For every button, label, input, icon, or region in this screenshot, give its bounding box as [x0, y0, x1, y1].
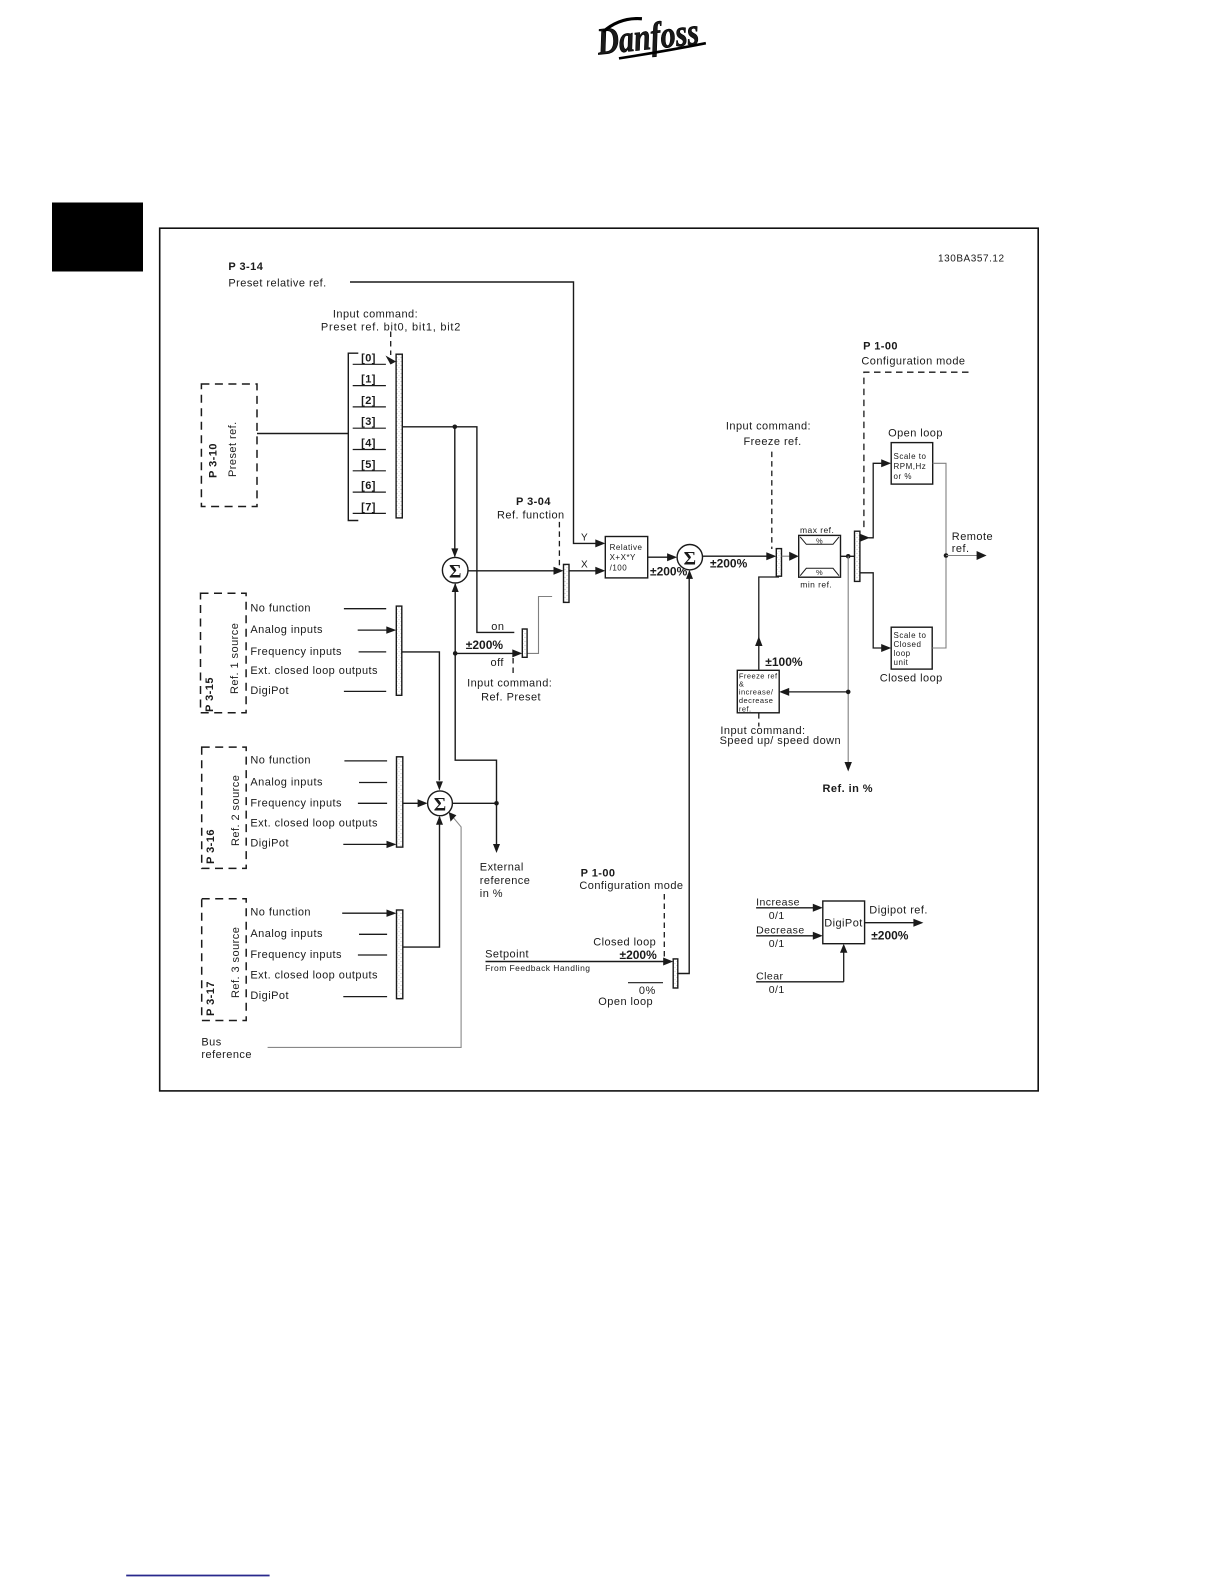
- svg-text:Ref. 3 source: Ref. 3 source: [230, 927, 242, 998]
- wire: freeze box up to freeze bar: [759, 577, 779, 670]
- wire: ref2 to sum2 left: [403, 802, 419, 804]
- svg-text:Frequency inputs: Frequency inputs: [250, 646, 342, 658]
- wire: ref3 to sum2 bottom: [403, 817, 440, 947]
- svg-text:Scale to: Scale to: [894, 452, 927, 461]
- svg-text:[1]: [1]: [361, 374, 376, 386]
- svg-text:Ref. 1 source: Ref. 1 source: [229, 623, 241, 694]
- svg-text:0/1: 0/1: [769, 910, 785, 922]
- op block scale to closed loop unit: [891, 627, 932, 669]
- svg-text:Configuration mode: Configuration mode: [861, 356, 965, 368]
- svg-text:Analog inputs: Analog inputs: [250, 928, 323, 940]
- wire: limiter output to main bar: [841, 555, 855, 557]
- wire: off input with arrow: [455, 652, 513, 654]
- svg-text:External: External: [480, 862, 524, 874]
- svg-text:unit: unit: [894, 658, 909, 667]
- svg-text:Input command:: Input command:: [333, 309, 418, 321]
- wire: ref1 to sum2 top: [402, 652, 440, 781]
- svg-text:Ext. closed loop outputs: Ext. closed loop outputs: [250, 817, 378, 829]
- svg-text:Ext. closed loop outputs: Ext. closed loop outputs: [250, 665, 378, 677]
- wire: sum1 output to ref function bar: [468, 570, 555, 572]
- wire: sum1 bottom feed: [455, 584, 496, 803]
- svg-text:Open loop: Open loop: [888, 428, 943, 440]
- svg-text:Closed loop: Closed loop: [880, 673, 943, 685]
- dashed box P 3-17 Ref.3 source: [202, 899, 247, 1021]
- svg-text:P 1-00: P 1-00: [863, 341, 898, 353]
- svg-text:P 3-10: P 3-10: [208, 443, 220, 478]
- junction node freeze branch: [846, 690, 851, 695]
- svg-text:±200%: ±200%: [466, 638, 504, 652]
- svg-text:DigiPot: DigiPot: [250, 838, 289, 850]
- junction node: [494, 801, 499, 806]
- svg-text:min ref.: min ref.: [800, 579, 832, 589]
- svg-text:Preset ref.: Preset ref.: [227, 421, 239, 477]
- svg-text:130BA357.12: 130BA357.12: [938, 254, 1005, 265]
- op block relative X+X*Y/100: [605, 537, 647, 578]
- svg-text:[3]: [3]: [361, 416, 376, 428]
- ref function selector bar: [564, 564, 570, 602]
- svg-text:Ref. in %: Ref. in %: [823, 783, 874, 795]
- wire: bus reference to sum2 diagonal: [268, 814, 462, 1047]
- wire: P3-10 to mux: [257, 433, 348, 435]
- on off switch bar: [522, 629, 527, 657]
- svg-text:Setpoint: Setpoint: [485, 949, 529, 961]
- dashed wire: freeze ref command: [771, 452, 773, 549]
- wire: branch down to sum1: [454, 427, 456, 557]
- svg-text:Frequency inputs: Frequency inputs: [250, 949, 342, 961]
- svg-text:Σ: Σ: [434, 794, 446, 815]
- wire: sum2 output: [452, 802, 496, 804]
- wire: remote ref output: [946, 555, 978, 557]
- footer blue line: [126, 1575, 269, 1577]
- svg-text:P 3-16: P 3-16: [205, 829, 217, 864]
- svg-text:P 1-00: P 1-00: [581, 868, 616, 880]
- svg-text:Speed up/ speed down: Speed up/ speed down: [720, 735, 842, 747]
- wire: bar upper output to open loop scale: [860, 534, 870, 542]
- svg-text:Closed: Closed: [894, 640, 922, 649]
- op block digipot: [823, 901, 865, 944]
- junction node: [944, 553, 949, 558]
- svg-text:DigiPot: DigiPot: [250, 685, 289, 697]
- svg-text:ref.: ref.: [952, 543, 970, 555]
- dashed wire: config mode bottom: [663, 894, 665, 959]
- svg-text:Ref. 2 source: Ref. 2 source: [230, 775, 242, 846]
- junction node: [453, 425, 458, 430]
- svg-text:Decrease: Decrease: [756, 925, 805, 937]
- svg-text:±200%: ±200%: [710, 557, 748, 571]
- svg-text:loop: loop: [894, 649, 911, 658]
- junction node: [846, 554, 851, 559]
- diagram frame: [160, 228, 1038, 1091]
- dashed wire: config mode top: [864, 372, 969, 530]
- svg-text:0/1: 0/1: [769, 938, 785, 950]
- svg-text:Configuration mode: Configuration mode: [579, 880, 683, 892]
- svg-text:Bus: Bus: [201, 1037, 221, 1049]
- wire: external reference arrow: [496, 803, 498, 844]
- wire: setpoint selector up to sum3: [678, 572, 689, 974]
- ref2 selector bar: [397, 757, 403, 847]
- svg-text:±200%: ±200%: [871, 929, 909, 943]
- limiter block max/min ref: [799, 535, 841, 577]
- op block freeze ref increase decrease: [737, 670, 779, 713]
- svg-text:Ref. function: Ref. function: [497, 510, 565, 522]
- svg-text:[4]: [4]: [361, 438, 376, 450]
- svg-text:[5]: [5]: [361, 459, 376, 471]
- svg-text:off: off: [491, 657, 505, 669]
- svg-text:reference: reference: [201, 1049, 252, 1061]
- svg-text:No function: No function: [250, 602, 311, 614]
- svg-text:Analog inputs: Analog inputs: [250, 776, 323, 788]
- svg-text:DigiPot: DigiPot: [250, 990, 289, 1002]
- svg-text:Open loop: Open loop: [598, 996, 653, 1008]
- summer sum2: [428, 791, 453, 816]
- svg-text:Freeze ref: Freeze ref: [739, 671, 778, 680]
- svg-text:±100%: ±100%: [765, 655, 803, 669]
- dashed wire: preset bits command: [390, 332, 392, 356]
- svg-text:No function: No function: [250, 907, 311, 919]
- op block scale to RPM: [891, 443, 933, 485]
- svg-text:Increase: Increase: [756, 897, 800, 909]
- junction node: [453, 651, 458, 656]
- dashed box P 3-10 Preset ref.: [201, 384, 257, 507]
- label 0% open loop: [628, 982, 663, 984]
- svg-text:[6]: [6]: [361, 480, 376, 492]
- svg-text:reference: reference: [480, 875, 531, 887]
- svg-text:Freeze ref.: Freeze ref.: [744, 436, 802, 448]
- svg-text:X+X*Y: X+X*Y: [610, 553, 636, 562]
- svg-text:Y: Y: [581, 533, 588, 544]
- svg-text:Input command:: Input command:: [726, 421, 811, 433]
- summer sum1: [442, 557, 468, 583]
- svg-text:Analog inputs: Analog inputs: [250, 624, 323, 636]
- svg-text:Σ: Σ: [449, 561, 461, 582]
- wire: branch to freeze box: [789, 691, 849, 693]
- wire: clear up into digipot: [843, 952, 845, 982]
- wire: relative box to sum3: [648, 556, 668, 558]
- Danfoss logo: [594, 10, 707, 63]
- wire: setpoint line: [486, 961, 665, 963]
- svg-text:on: on: [491, 621, 504, 633]
- svg-text:Scale to: Scale to: [894, 631, 927, 640]
- black tab box: [52, 203, 143, 272]
- svg-text:Danfoss: Danfoss: [594, 11, 701, 64]
- preset selector bar: [396, 354, 402, 518]
- wire: ref in % arrow: [847, 556, 849, 763]
- svg-text:Clear: Clear: [756, 971, 783, 983]
- svg-text:%: %: [816, 537, 823, 546]
- ref3 selector bar: [397, 910, 403, 999]
- main mode selector bar: [855, 531, 860, 581]
- svg-text:Relative: Relative: [610, 543, 643, 552]
- svg-text:Preset relative ref.: Preset relative ref.: [228, 278, 326, 290]
- svg-text:[2]: [2]: [361, 395, 376, 407]
- dashed wire: ref preset command: [512, 658, 514, 675]
- svg-text:DigiPot: DigiPot: [824, 918, 863, 930]
- svg-text:Digipot ref.: Digipot ref.: [869, 905, 928, 917]
- wire: sum3 output to freeze bar: [703, 555, 768, 557]
- svg-text:No function: No function: [250, 755, 311, 767]
- svg-text:P 3-04: P 3-04: [516, 496, 551, 508]
- bracket for preset mux list: [348, 353, 358, 520]
- svg-text:Closed loop: Closed loop: [593, 937, 656, 949]
- setpoint selector bar: [673, 959, 678, 988]
- dashed wire: speed command: [758, 713, 760, 726]
- wire: freeze bar to limiter: [782, 555, 791, 557]
- svg-text:From Feedback Handling: From Feedback Handling: [485, 963, 590, 973]
- svg-text:/100: /100: [610, 564, 628, 573]
- wire: bar to relative box X: [569, 570, 596, 572]
- svg-text:X: X: [581, 559, 588, 570]
- svg-text:or %: or %: [894, 472, 912, 481]
- svg-text:[0]: [0]: [361, 352, 376, 364]
- svg-text:P 3-15: P 3-15: [204, 677, 216, 712]
- wire: preset relative ref to Y input: [350, 282, 596, 543]
- svg-text:in %: in %: [480, 888, 503, 900]
- svg-text:0/1: 0/1: [769, 984, 785, 996]
- dashed box P 3-16 Ref.2 source: [202, 747, 247, 868]
- dashed box P 3-15 Ref.1 source: [201, 593, 247, 713]
- wire: bar lower output to closed loop scale: [860, 573, 882, 648]
- svg-text:Σ: Σ: [684, 548, 696, 569]
- svg-text:P 3-14: P 3-14: [228, 261, 263, 273]
- svg-text:Input command:: Input command:: [467, 678, 552, 690]
- svg-text:Ext. closed loop outputs: Ext. closed loop outputs: [250, 970, 378, 982]
- svg-text:RPM,Hz: RPM,Hz: [894, 462, 927, 471]
- svg-text:max ref.: max ref.: [800, 525, 834, 535]
- svg-text:Frequency inputs: Frequency inputs: [250, 798, 342, 810]
- wire: scale outputs join: [932, 463, 946, 648]
- wire: preset switch to bar lower input: [527, 597, 552, 654]
- freeze switch bar: [776, 549, 781, 577]
- dashed wire: ref function: [558, 522, 560, 565]
- summer sum3: [677, 545, 702, 570]
- wire: digipot output: [865, 922, 914, 924]
- svg-text:Ref. Preset: Ref. Preset: [481, 692, 541, 704]
- svg-text:Remote: Remote: [952, 531, 993, 543]
- svg-text:P 3-17: P 3-17: [205, 981, 217, 1016]
- svg-text:%: %: [816, 568, 823, 577]
- svg-text:ref.: ref.: [739, 704, 752, 713]
- svg-text:[7]: [7]: [361, 501, 376, 513]
- wire: selector output: [402, 427, 514, 633]
- svg-text:±200%: ±200%: [620, 948, 658, 962]
- ref1 selector bar: [396, 606, 402, 695]
